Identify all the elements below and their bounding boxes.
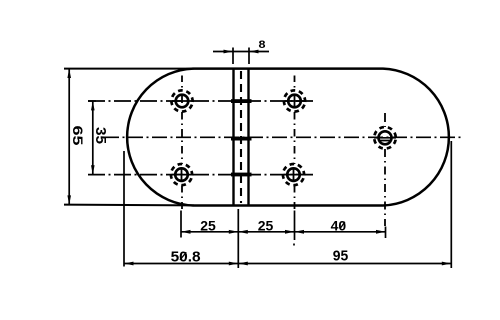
svg-text:35: 35 [92,127,108,144]
svg-text:65: 65 [70,126,86,146]
svg-text:40: 40 [331,217,347,233]
svg-text:95: 95 [333,247,349,264]
svg-text:25: 25 [200,218,216,234]
svg-text:50.8: 50.8 [171,248,201,265]
svg-text:25: 25 [258,218,274,234]
svg-text:8: 8 [259,39,266,51]
